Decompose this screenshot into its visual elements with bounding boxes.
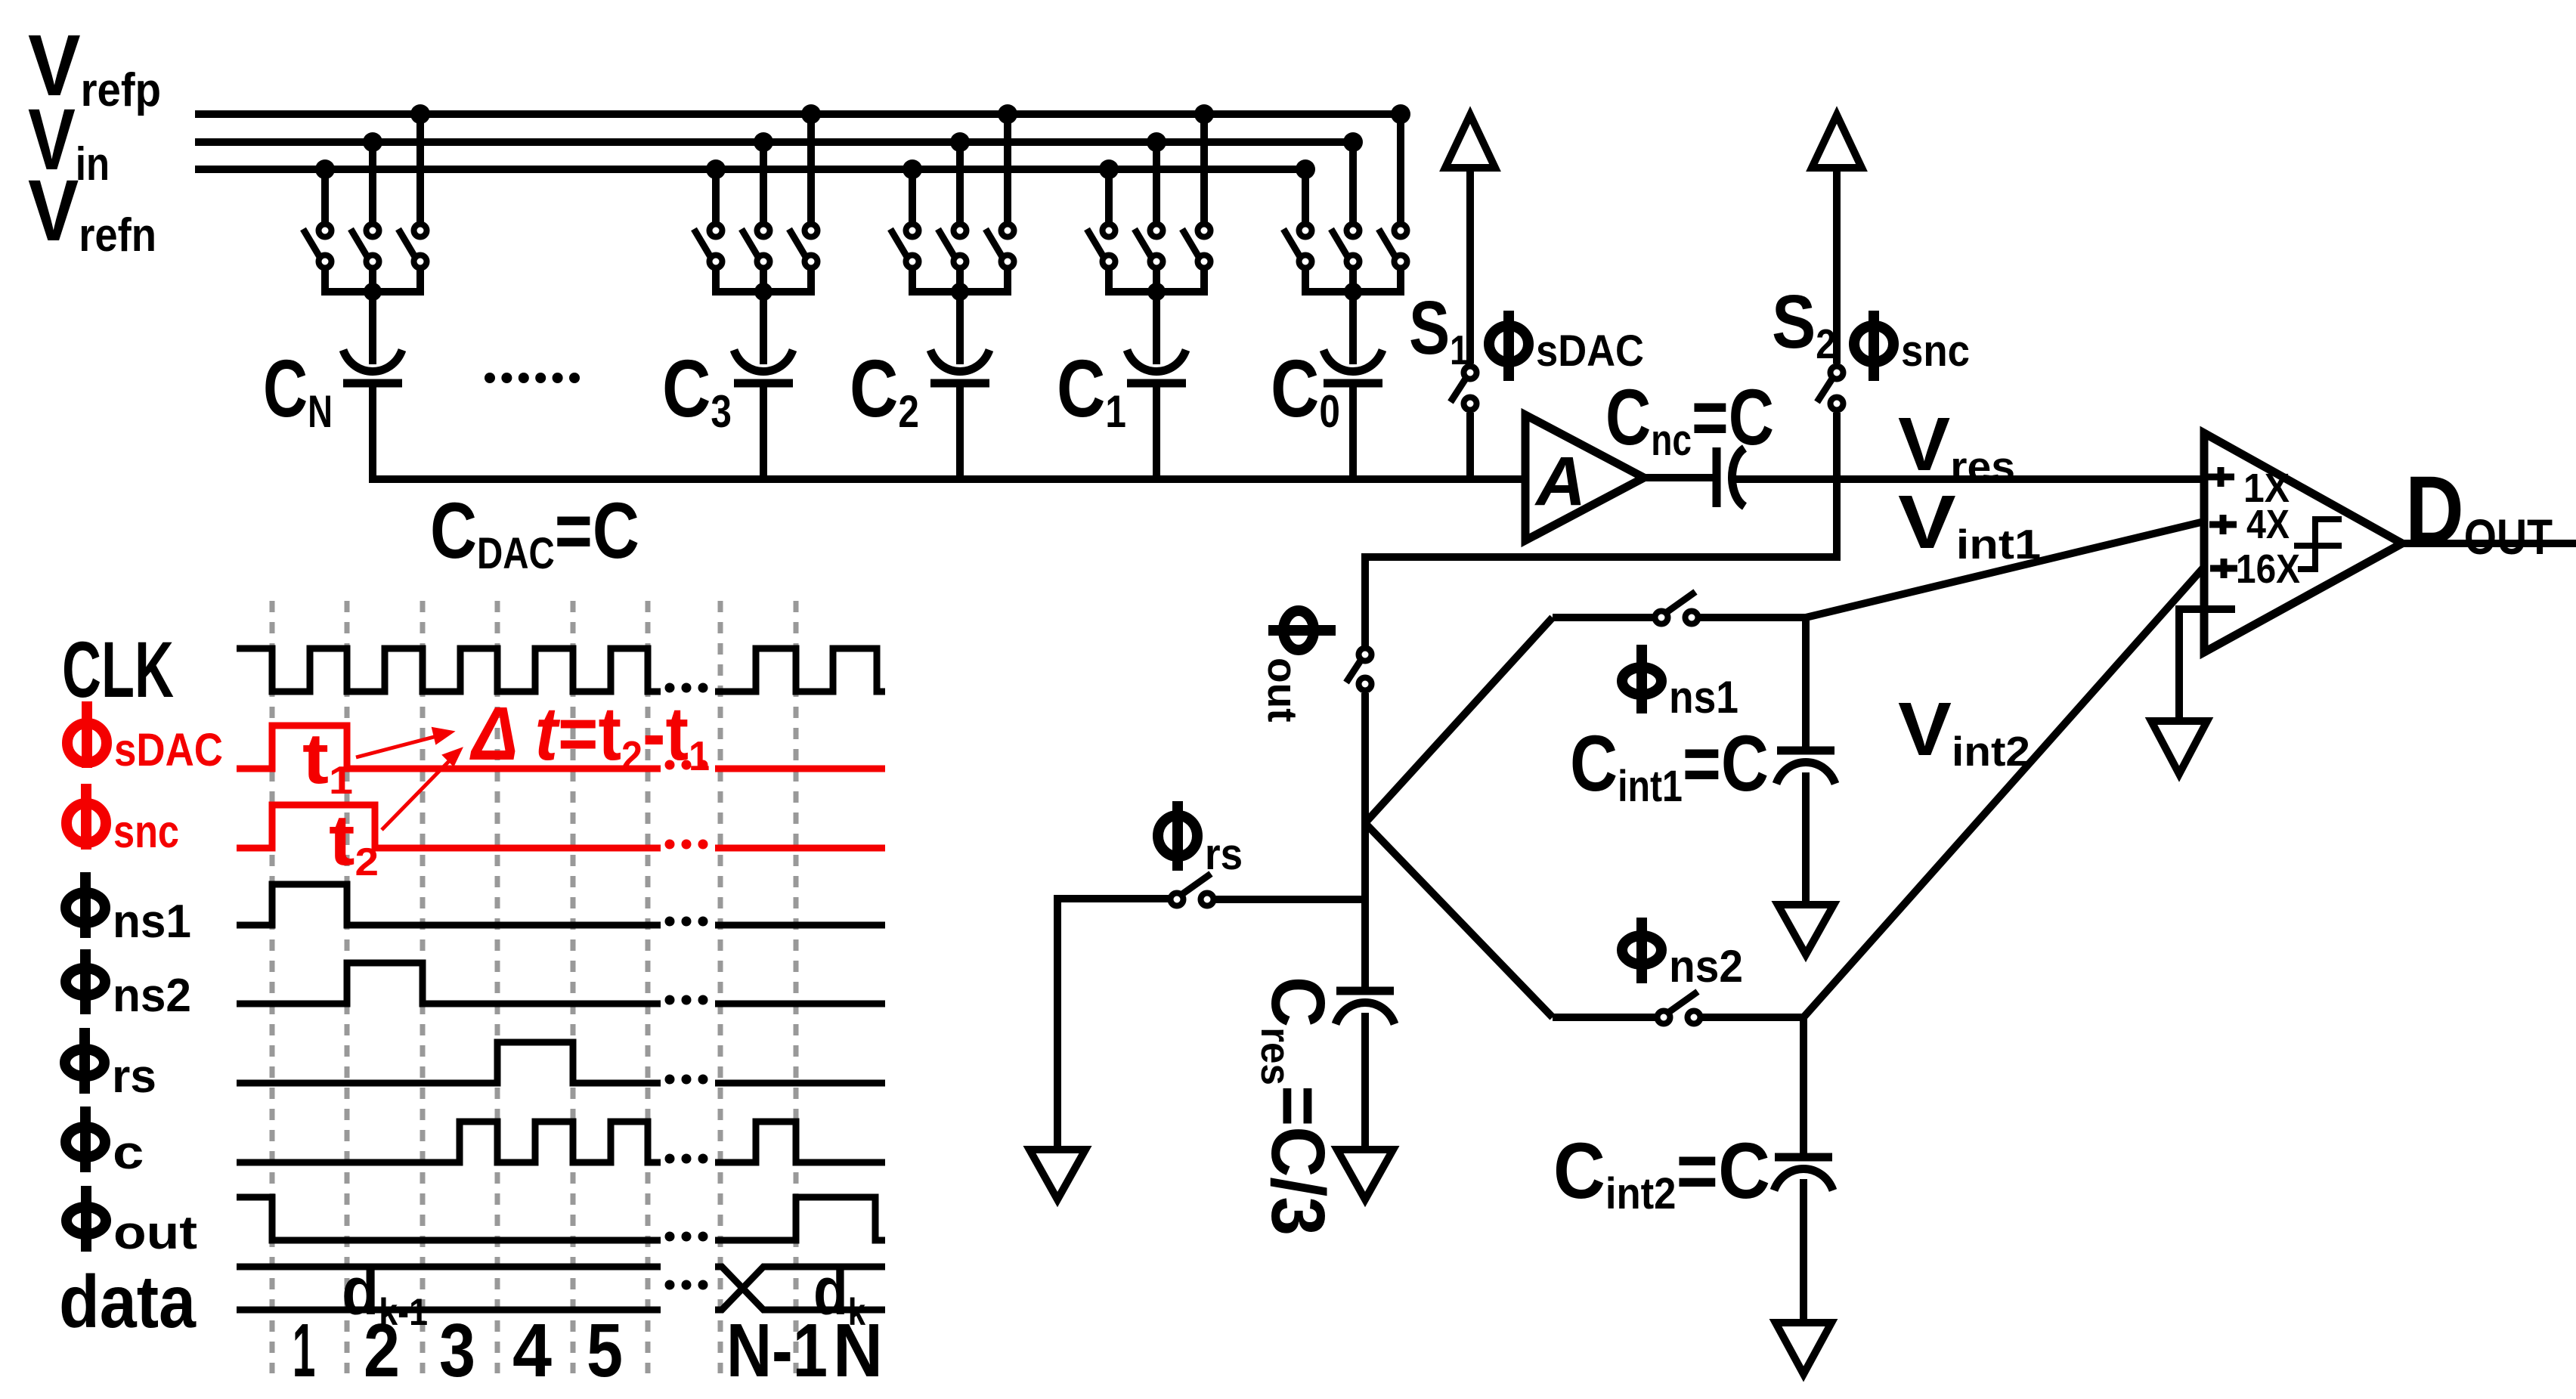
annotation arrow t1 <box>356 728 454 757</box>
capacitor Cnc <box>1717 447 1745 507</box>
junction dot C0 switch bus <box>1344 283 1362 301</box>
wire CN bottom plate <box>369 383 376 483</box>
switch C1-Vrefp <box>1182 224 1211 268</box>
wire hexagon bottom edge left <box>1553 1014 1657 1021</box>
junction dot C1 switch bus <box>1147 283 1166 301</box>
junction dot CN switch bus <box>364 283 382 301</box>
dots phi_sDAC ellipsis <box>665 760 708 770</box>
dots phi_out ellipsis <box>665 1232 708 1242</box>
switch C0-Vin <box>1331 224 1360 268</box>
waveform data lower rail <box>237 1307 661 1314</box>
wire phi_rs right segment <box>1215 896 1365 903</box>
label phi_out timing <box>67 1186 197 1259</box>
junction dot C2 switch bus <box>951 283 969 301</box>
waveform phi_c <box>237 1122 661 1162</box>
wire DAC top-plate bus <box>372 475 1525 483</box>
comparator hysteresis symbol <box>2298 519 2342 569</box>
label phi_ns2 <box>1622 918 1743 992</box>
wire Vrefn rail <box>195 166 1305 173</box>
wire phi_out to integrator node <box>1361 693 1369 991</box>
svg-text:ns2: ns2 <box>113 969 191 1021</box>
waveform phi_ns1 <box>237 884 661 925</box>
svg-text:data: data <box>59 1261 197 1343</box>
wire S1 to arrow <box>1466 168 1474 364</box>
ground below Cres <box>1337 1150 1393 1199</box>
junction dots C1 rail taps <box>1099 104 1214 179</box>
switch C0-Vrefp <box>1379 224 1407 268</box>
wire hexagon bottom edge right <box>1702 1014 1804 1021</box>
junction dots C0 rail taps <box>1296 104 1410 179</box>
capacitor C0 <box>1324 350 1382 383</box>
wire rail stubs CN switch group <box>325 114 420 227</box>
wire hexagon top edge right <box>1700 614 1806 621</box>
label phi_snc timing <box>67 784 179 857</box>
dots phi_c ellipsis <box>665 1154 708 1164</box>
arrow S2 bootstrap <box>1812 115 1862 168</box>
wire C2 bottom plate <box>956 383 964 483</box>
waveform phi_rs <box>237 1042 661 1083</box>
junction dots C3 rail taps <box>706 104 821 179</box>
labels column numbers <box>293 1308 883 1393</box>
svg-text:1: 1 <box>293 1309 316 1394</box>
switch C1-Vrefn <box>1087 224 1116 268</box>
capacitor Cint2 <box>1774 1157 1833 1190</box>
svg-text:16X: 16X <box>2236 546 2300 591</box>
wire S2 arrow stem <box>1833 168 1841 364</box>
svg-text:4: 4 <box>512 1308 552 1393</box>
arrow S1 bootstrap <box>1445 115 1495 168</box>
label phi_sDAC <box>1489 311 1644 381</box>
svg-text:snc: snc <box>113 805 179 857</box>
comparator triangle <box>2204 433 2402 652</box>
wire Cint1 top <box>1802 617 1810 747</box>
dots phi_snc ellipsis <box>665 840 708 850</box>
wire Cint2 top <box>1800 1017 1807 1153</box>
wire DOUT output <box>2398 540 2576 547</box>
op-amp A triangle <box>1525 415 1644 540</box>
svg-text:ns1: ns1 <box>1669 673 1738 723</box>
wire C1 switch output bus <box>1109 268 1204 364</box>
wire S2 down to phi_out branch <box>1365 413 1837 557</box>
wire rail stubs C3 switch group <box>716 114 811 227</box>
junction dots C2 rail taps <box>903 104 1017 179</box>
svg-text:ns1: ns1 <box>113 895 191 947</box>
switch C2-Vin <box>938 224 967 268</box>
wire Vres <box>1736 475 2204 483</box>
wire Cint1 to ground <box>1802 772 1810 905</box>
ground below Cint1 <box>1778 905 1834 955</box>
junction dot C3 switch bus <box>754 283 772 301</box>
wire phi_rs left segment and down to ground <box>1057 899 1169 1150</box>
wire amp output <box>1640 474 1717 481</box>
svg-text:c: c <box>113 1126 144 1179</box>
switch C2-Vrefn <box>890 224 919 268</box>
dots data ellipsis <box>665 1280 708 1290</box>
svg-text:ns2: ns2 <box>1669 942 1743 992</box>
ground below Cint2 <box>1776 1323 1831 1374</box>
label phi_rs <box>1158 801 1243 879</box>
junction dots CN rail taps <box>315 104 430 179</box>
wire C3 bottom plate <box>760 383 767 483</box>
switch C2-Vrefp <box>986 224 1014 268</box>
annotation arrow t2 <box>382 748 462 830</box>
ground below comparator <box>2151 721 2207 774</box>
svg-text:rs: rs <box>1205 830 1243 879</box>
wire hexagon top edge left <box>1553 614 1655 621</box>
wire Vrefp rail <box>195 110 1401 118</box>
svg-text:A: A <box>1534 443 1586 520</box>
svg-text:4X: 4X <box>2246 501 2290 547</box>
dots CLK ellipsis <box>665 683 708 693</box>
switch S1 <box>1451 367 1477 410</box>
capacitor Cint1 <box>1776 751 1835 784</box>
switch C3-Vrefp <box>789 224 818 268</box>
switch phi_ns2 <box>1658 992 1701 1024</box>
svg-text:3: 3 <box>439 1308 475 1392</box>
switch phi_out <box>1346 648 1372 691</box>
svg-text:Δ t=t2-t1: Δ t=t2-t1 <box>469 692 710 779</box>
wire C1 bottom plate <box>1153 383 1160 483</box>
waveform CLK <box>237 648 661 692</box>
svg-text:snc: snc <box>1901 327 1970 376</box>
dots ellipsis between CN and C3 <box>485 373 580 383</box>
switch S2 <box>1817 367 1844 410</box>
wire rail stubs C1 switch group <box>1109 114 1204 227</box>
dots phi_ns2 ellipsis <box>665 995 708 1005</box>
label phi_ns2 timing <box>66 949 191 1021</box>
wire comparator ground <box>2175 609 2183 721</box>
wire C0 bottom plate <box>1349 383 1357 483</box>
switch phi_ns1 <box>1655 592 1698 624</box>
wire C3 switch output bus <box>716 268 811 364</box>
capacitor Cres <box>1336 991 1395 1024</box>
label phi_sDAC timing <box>67 701 223 776</box>
wire hexagon lower-left slope <box>1365 823 1553 1017</box>
comparator + input 4X <box>2209 515 2237 534</box>
switch C3-Vin <box>742 224 770 268</box>
waveform phi_snc <box>237 805 661 848</box>
switch C3-Vrefn <box>694 224 723 268</box>
svg-text:sDAC: sDAC <box>114 725 223 776</box>
svg-text:out: out <box>1259 658 1306 723</box>
net Vint1 slope to comparator <box>1806 522 2204 617</box>
label phi_out rotated <box>1259 611 1336 723</box>
comparator ground pin bar <box>2175 605 2235 613</box>
switch C1-Vin <box>1135 224 1163 268</box>
wire Vin rail <box>195 138 1353 146</box>
comparator + input 16X <box>2210 559 2237 578</box>
capacitor C1 <box>1127 350 1186 383</box>
net Vint2 slope to comparator <box>1804 567 2204 1017</box>
wire Cint2 to ground <box>1800 1179 1807 1323</box>
wire hexagon upper-left slope <box>1365 617 1553 823</box>
wire C0 switch output bus <box>1305 268 1401 364</box>
waveform data upper rail <box>237 1264 661 1271</box>
waveform phi_sDAC <box>237 726 661 769</box>
svg-text:Cres=C/3: Cres=C/3 <box>1252 977 1339 1236</box>
dots phi_ns1 ellipsis <box>665 917 708 927</box>
wire rail stubs C2 switch group <box>912 114 1008 227</box>
wire rail stubs C0 switch group <box>1305 114 1401 227</box>
svg-text:N: N <box>833 1308 883 1393</box>
wire C2 switch output bus <box>912 268 1008 364</box>
svg-text:rs: rs <box>112 1051 156 1103</box>
label phi_ns1 <box>1622 645 1738 723</box>
comparator + input 1X <box>2207 467 2234 487</box>
switch CN-Vrefn <box>303 224 332 268</box>
wire Cres to ground <box>1361 1013 1369 1150</box>
wire phi_out stub <box>1361 553 1369 646</box>
capacitor CN <box>343 350 402 383</box>
svg-text:CLK: CLK <box>62 627 174 715</box>
waveform phi_out <box>237 1197 661 1240</box>
switch CN-Vrefp <box>398 224 427 268</box>
wire S1 from bus <box>1466 413 1474 479</box>
svg-text:5: 5 <box>587 1308 623 1392</box>
svg-text:2: 2 <box>364 1308 400 1392</box>
switch C0-Vrefn <box>1283 224 1312 268</box>
svg-text:sDAC: sDAC <box>1536 327 1644 376</box>
switch CN-Vin <box>351 224 379 268</box>
svg-text:N-1: N-1 <box>726 1309 828 1393</box>
svg-text:out: out <box>113 1206 197 1259</box>
label phi_ns1 timing <box>66 872 191 947</box>
capacitor C3 <box>734 350 793 383</box>
label phi_c timing <box>66 1107 144 1179</box>
dots phi_rs ellipsis <box>665 1075 708 1085</box>
waveform phi_ns2 <box>237 963 661 1004</box>
timing grid dashed lines <box>272 601 796 1373</box>
label phi_snc <box>1854 311 1970 381</box>
label phi_rs timing <box>65 1028 156 1103</box>
ground below phi_rs <box>1029 1150 1085 1199</box>
capacitor C2 <box>930 350 989 383</box>
switch phi_rs <box>1171 874 1214 906</box>
wire CN switch output bus <box>325 268 420 364</box>
